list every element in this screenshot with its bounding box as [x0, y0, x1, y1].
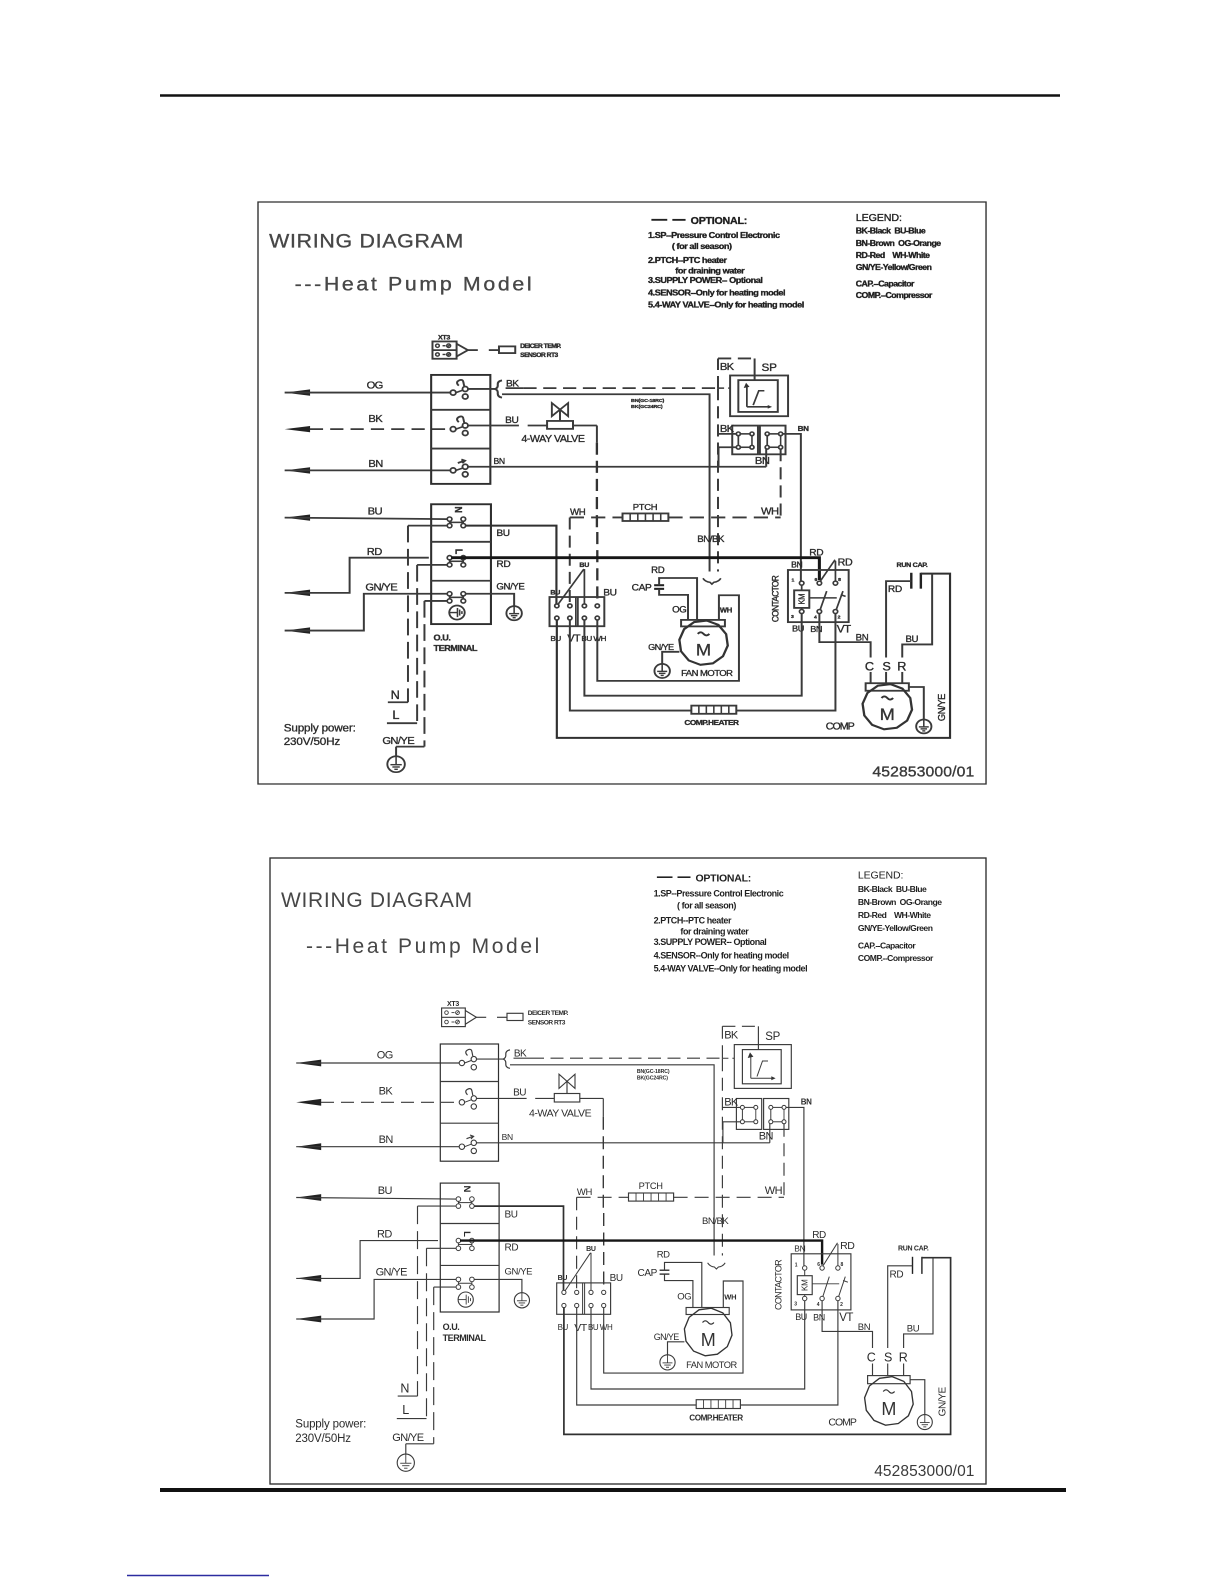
wire BK (dashed) [321, 1101, 459, 1103]
svg-text:L: L [461, 1231, 472, 1237]
wire arrow GN/YE branch [285, 627, 310, 633]
footer link line (blue) [127, 1575, 269, 1577]
wire RD bus (thick) [451, 558, 819, 580]
svg-text:GN/YE: GN/YE [392, 1432, 423, 1444]
svg-text:1.SP--Pressure Control Electro: 1.SP--Pressure Control Electronic [648, 230, 780, 240]
terminal contacts N row [458, 1202, 472, 1204]
svg-text:WH: WH [593, 634, 606, 643]
optional legend dashes [657, 876, 673, 878]
wire BK dashed to SP [514, 1057, 532, 1059]
wiring diagram sheet 2 (bottom) [270, 858, 986, 1484]
wire BK dashed up-over to SP [721, 1026, 723, 1058]
svg-text:BN: BN [858, 1322, 871, 1333]
svg-text:COMP: COMP [828, 1416, 856, 1428]
compressor terminal box [866, 683, 909, 691]
svg-text:8: 8 [841, 1262, 844, 1268]
svg-text:230V/50Hz: 230V/50Hz [284, 736, 341, 747]
wire BN up into connector [769, 1124, 771, 1143]
wire BN out long [477, 1142, 770, 1144]
svg-text:BU: BU [907, 1323, 920, 1334]
svg-text:KM: KM [801, 1279, 810, 1291]
wire BN [296, 1146, 459, 1148]
connector SP 4-pole right half [764, 1099, 789, 1130]
wire BN/BK solid to sensor plug [510, 1065, 714, 1256]
wire cap bottom OG to motor [659, 589, 688, 620]
wire RD with step [285, 558, 429, 593]
wiring diagram sheet 1 (top) [258, 202, 986, 784]
earth symbol (compressor) [916, 719, 931, 733]
wire BU out of terminal to plug [466, 526, 557, 604]
svg-text:BN-Brown OG-Orange: BN-Brown OG-Orange [858, 897, 942, 907]
wire BK dashed to SP [506, 387, 524, 389]
sensor curly bracket [703, 578, 721, 584]
run capacitor [912, 1257, 914, 1274]
svg-text:BU: BU [579, 562, 589, 569]
svg-text:OG: OG [672, 605, 686, 615]
svg-text:CAP.--Capacitor: CAP.--Capacitor [856, 279, 915, 289]
brace BK/BN split [495, 380, 502, 397]
PTC heater PTCH [629, 1193, 674, 1201]
svg-text:BN: BN [801, 1098, 812, 1107]
bracket GN/YE supply [396, 746, 424, 748]
svg-text:Supply power:: Supply power: [295, 1418, 366, 1430]
svg-text:BN-Brown OG-Orange: BN-Brown OG-Orange [856, 238, 942, 248]
wire VT contactor to heater [570, 614, 836, 711]
wire BN contactor to COMP C [819, 614, 870, 658]
brace BK/BN split [503, 1050, 510, 1068]
svg-text:N: N [453, 507, 463, 514]
svg-text:BU: BU [610, 1273, 623, 1284]
earth symbol (compressor) [917, 1415, 932, 1430]
wire OG [296, 1062, 459, 1064]
svg-text:WH: WH [724, 1292, 736, 1301]
svg-text:RD: RD [651, 566, 665, 576]
svg-text:BU: BU [550, 590, 560, 597]
wire BK to connector pin [722, 1106, 740, 1108]
svg-text:S: S [882, 660, 890, 673]
svg-text:WH: WH [720, 606, 732, 615]
plug pins [562, 1290, 566, 1294]
wire N stub [408, 525, 447, 527]
svg-text:452853000/01: 452853000/01 [874, 1463, 974, 1480]
svg-text:1.SP--Pressure Control Electro: 1.SP--Pressure Control Electronic [654, 889, 784, 899]
svg-text:CAP: CAP [638, 1268, 658, 1279]
svg-text:DEICER TEMP.: DEICER TEMP. [528, 1010, 569, 1017]
svg-text:BN: BN [755, 455, 770, 466]
svg-text:RD: RD [377, 1229, 392, 1241]
wire BU out of terminal to plug [474, 1206, 563, 1290]
contactor coil pins [799, 581, 803, 585]
wire run cap right loop (BU) [564, 1258, 951, 1435]
terminal contacts L row [450, 560, 464, 562]
SP characteristic graph [750, 1057, 752, 1078]
contactor main contact (RD) [820, 1266, 824, 1270]
svg-text:BN/BK: BN/BK [697, 535, 725, 545]
earth symbol (right of terminal) [506, 606, 521, 620]
compressor terminal box [868, 1376, 911, 1384]
wire BU to COMP R [904, 1258, 933, 1348]
wire WH dashed down to plug [576, 1197, 578, 1290]
svg-text:BU: BU [603, 588, 617, 598]
wire VT contactor to heater [577, 1301, 838, 1405]
svg-text:BK: BK [379, 1086, 394, 1098]
svg-text:4: 4 [814, 615, 817, 621]
pressure control SP box [734, 1045, 791, 1089]
svg-text:RD: RD [809, 548, 823, 558]
capacitor CAP (fan) [654, 584, 664, 586]
wire WH dashed PTCH line [577, 1196, 629, 1198]
svg-text:BU: BU [586, 1246, 596, 1253]
earth symbol (fan motor) [654, 664, 669, 678]
svg-text:3.SUPPLY POWER-- Optional: 3.SUPPLY POWER-- Optional [654, 937, 767, 947]
wire GN/YE with step [285, 594, 447, 631]
svg-text:for draining water: for draining water [680, 927, 749, 937]
svg-text:BN: BN [791, 561, 803, 570]
svg-text:XT3: XT3 [438, 335, 451, 342]
wire BK dashed up-over to SP [717, 358, 719, 388]
svg-text:RD: RD [890, 1270, 904, 1281]
svg-text:BK: BK [724, 1097, 739, 1109]
wire GN/YE fan earth [668, 1342, 685, 1355]
svg-text:Supply power:: Supply power: [284, 723, 356, 734]
wire BN from connector to contactor [783, 434, 801, 581]
svg-text:SENSOR RT3: SENSOR RT3 [520, 352, 559, 359]
sensor curly bracket [708, 1263, 726, 1269]
svg-text:BN: BN [794, 1243, 805, 1253]
contactor coil KM [794, 590, 809, 608]
svg-text:GN/YE: GN/YE [938, 1387, 949, 1417]
svg-text:RUN CAP.: RUN CAP. [897, 562, 928, 569]
svg-text:BN: BN [813, 1313, 825, 1323]
svg-text:---Heat Pump Model: ---Heat Pump Model [295, 273, 535, 295]
wire WH motor loop [604, 1281, 743, 1373]
capacitor CAP (fan) [660, 1269, 670, 1271]
svg-text:RD: RD [888, 584, 902, 594]
svg-text:GN/YE: GN/YE [648, 642, 674, 652]
svg-text:BU: BU [368, 506, 382, 517]
wire BK to connector pin [718, 433, 736, 435]
svg-text:BU: BU [588, 1323, 599, 1332]
svg-text:KM: KM [797, 594, 806, 605]
svg-text:BN: BN [798, 424, 810, 433]
PTC heater PTCH [623, 513, 669, 521]
svg-text:BN: BN [502, 1132, 513, 1142]
svg-text:O.U.: O.U. [433, 633, 450, 643]
wire BK (dashed) [310, 428, 450, 430]
leader BU pin1 [565, 1253, 590, 1291]
wire WH dashed from connector down [780, 449, 782, 517]
wire connector left-bottom pin to BN wire [719, 447, 737, 467]
4-way valve [547, 421, 573, 429]
contactor aux contacts [820, 1296, 824, 1300]
connector XT3 [432, 341, 456, 358]
wire valve to plug (dashed) [580, 1097, 604, 1099]
svg-text:C: C [865, 660, 874, 673]
svg-text:N: N [391, 688, 400, 701]
terminal block upper (OG/BK/BN) [440, 1044, 498, 1161]
wire N dashed down [407, 526, 409, 703]
earth symbol (fan motor) [660, 1355, 675, 1370]
svg-text:WH: WH [761, 506, 779, 517]
wire arrow RD branch [285, 590, 310, 596]
svg-text:6: 6 [814, 577, 817, 583]
svg-text:1: 1 [792, 578, 795, 584]
svg-text:M: M [881, 1399, 896, 1419]
bracket L [387, 722, 417, 724]
wire BU contactor to plug pin3 [591, 1301, 805, 1389]
svg-text:---Heat Pump Model: ---Heat Pump Model [306, 935, 542, 958]
wire to supply earth [395, 747, 397, 757]
svg-text:4.SENSOR--Only for heating mod: 4.SENSOR--Only for heating model [654, 951, 789, 961]
wire arrow BU [296, 1194, 321, 1201]
fan motor M polygon circle [679, 621, 727, 665]
page bottom rule [160, 1488, 1066, 1492]
plug connector (fan motor) [557, 1283, 611, 1314]
svg-text:RD-Red WH-White: RD-Red WH-White [858, 910, 931, 920]
pressure control SP box [730, 375, 788, 416]
wire WH dashed PTCH line [570, 516, 623, 518]
terminal contacts L row [458, 1243, 472, 1245]
svg-text:4-WAY VALVE: 4-WAY VALVE [521, 435, 585, 445]
wire GN/YE dashed down [423, 601, 425, 747]
fan motor terminal box [681, 620, 725, 627]
wire arrow BN [285, 467, 310, 473]
connector SP 4-pole left half [736, 1099, 761, 1130]
wire L stub [427, 1247, 457, 1249]
contactor coil KM [797, 1276, 812, 1295]
svg-text:BK: BK [720, 361, 735, 372]
svg-text:BU: BU [496, 528, 510, 538]
svg-text:OPTIONAL:: OPTIONAL: [696, 873, 752, 885]
wire XT3 to sensor [457, 344, 468, 357]
svg-text:M: M [696, 640, 711, 659]
connector SP 4-pole right half [760, 426, 786, 455]
svg-text:L: L [392, 709, 399, 722]
wire WH dashed down to plug [569, 517, 571, 604]
svg-text:BK-Black BU-Blue: BK-Black BU-Blue [856, 226, 926, 236]
svg-text:BU: BU [505, 1209, 518, 1220]
svg-text:TERMINAL: TERMINAL [433, 643, 478, 653]
svg-text:GN/YE: GN/YE [505, 1267, 533, 1278]
connector pins [740, 1105, 744, 1109]
wire BK dashed stub to SP box [718, 387, 730, 389]
wire OG out to brace [477, 1058, 504, 1060]
svg-text:BU: BU [513, 1088, 526, 1099]
wire GN/YE out to earth [466, 594, 515, 606]
wire RD with step [296, 1241, 438, 1279]
wire L dashed down [426, 1248, 428, 1418]
earth symbol (supply) [397, 1454, 414, 1471]
svg-text:RD: RD [496, 559, 510, 569]
wire connector left-bottom pin to BN wire [723, 1122, 741, 1143]
4-way valve [554, 1094, 580, 1103]
svg-text:2.PTCH--PTC heater: 2.PTCH--PTC heater [654, 916, 732, 926]
wire cap bottom OG to motor [665, 1274, 693, 1307]
wire GN/YE fan earth [662, 652, 679, 664]
svg-text:RD-Red WH-White: RD-Red WH-White [856, 250, 931, 260]
svg-text:GN/YE: GN/YE [365, 582, 397, 593]
svg-text:GN/YE: GN/YE [654, 1332, 680, 1342]
wire arrow OG [296, 1060, 321, 1067]
wire GN/YE comp earth [910, 1380, 925, 1415]
svg-text:3.SUPPLY POWER-- Optional: 3.SUPPLY POWER-- Optional [648, 275, 762, 285]
svg-text:8: 8 [838, 577, 841, 583]
svg-text:GN/YE-Yellow/Green: GN/YE-Yellow/Green [858, 923, 933, 933]
compressor heater COMP.HEATER [696, 1400, 740, 1409]
wire arrow BK [285, 426, 310, 432]
switch contact OG row [465, 1061, 472, 1064]
wire BU contactor to plug pin3 [584, 614, 801, 696]
svg-text:BN/BK: BN/BK [702, 1216, 729, 1227]
svg-text:N: N [461, 1186, 472, 1193]
diagram border frame [258, 202, 986, 784]
svg-text:BN: BN [759, 1131, 774, 1143]
svg-text:452853000/01: 452853000/01 [872, 764, 974, 780]
svg-text:GN/YE: GN/YE [936, 693, 947, 721]
svg-text:BN: BN [368, 458, 382, 469]
svg-text:COMP.--Compressor: COMP.--Compressor [856, 290, 933, 300]
svg-text:GN/YE: GN/YE [382, 736, 414, 747]
svg-text:2: 2 [838, 615, 841, 621]
earth symbol (terminal internal) [449, 605, 464, 619]
svg-text:3: 3 [794, 1302, 797, 1308]
fan motor terminal box [686, 1308, 729, 1315]
switch contact BK row [465, 1100, 472, 1103]
diagram border frame [270, 858, 986, 1484]
svg-text:CAP: CAP [632, 583, 652, 593]
connector SP 4-pole left half [732, 426, 758, 455]
svg-text:BN: BN [810, 625, 822, 635]
svg-text:RUN CAP.: RUN CAP. [898, 1245, 929, 1252]
terminal contacts N row [450, 521, 464, 523]
wire BN contactor to COMP C [822, 1301, 872, 1348]
wire XT3 to sensor [465, 1011, 476, 1025]
svg-text:VT: VT [837, 624, 852, 635]
svg-text:OG: OG [367, 380, 383, 391]
svg-text:BU: BU [558, 1275, 568, 1282]
compressor COMP M polygon circle [863, 684, 912, 729]
svg-text:WIRING DIAGRAM: WIRING DIAGRAM [269, 230, 464, 252]
terminal block lower (N/L/GN-YE) [440, 1183, 499, 1312]
svg-text:BU: BU [505, 415, 519, 425]
wire BU out to 4-way valve [468, 424, 519, 426]
svg-text:BN: BN [856, 633, 869, 643]
deicer temp sensor RT3 [499, 346, 515, 353]
wire OG out to brace [468, 388, 495, 390]
svg-text:BN: BN [379, 1134, 394, 1146]
svg-text:2.PTCH--PTC heater: 2.PTCH--PTC heater [648, 255, 728, 265]
wire BU [296, 1198, 456, 1200]
wire pin3 up [590, 1253, 592, 1291]
wire arrow BN [296, 1143, 321, 1150]
wire BN from connector to contactor [786, 1107, 804, 1265]
wire L dashed down [416, 565, 418, 723]
earth symbol (right of terminal) [514, 1293, 529, 1308]
svg-text:PTCH: PTCH [639, 1181, 663, 1191]
svg-text:RD: RD [812, 1230, 826, 1241]
svg-text:OPTIONAL:: OPTIONAL: [691, 216, 747, 226]
svg-text:BN(GC-18RC): BN(GC-18RC) [637, 1069, 670, 1075]
compressor heater COMP.HEATER [691, 706, 736, 714]
wire arrow BK [296, 1099, 321, 1106]
run capacitor [910, 573, 912, 589]
svg-text:LEGEND:: LEGEND: [856, 213, 902, 223]
wire BK dashed down to sensor curly [717, 388, 719, 571]
switch contact OG row [456, 390, 463, 392]
wire GN/YE out to earth [474, 1279, 522, 1292]
svg-text:RD: RD [840, 1240, 855, 1252]
bracket GN/YE supply [406, 1443, 434, 1445]
terminal block lower (N/L/GN-YE) [431, 504, 491, 624]
switch contact BN row [456, 468, 463, 470]
bracket N [398, 1395, 418, 1397]
wire RD run cap to S [888, 1266, 913, 1348]
svg-text:VT: VT [839, 1312, 853, 1324]
svg-text:OG: OG [677, 1291, 691, 1302]
svg-text:SP: SP [762, 362, 777, 373]
wire BN [285, 469, 451, 471]
wire BU [285, 518, 447, 519]
svg-text:COMP: COMP [826, 722, 855, 732]
wire BK dashed down to sensor curly [721, 1058, 723, 1255]
contactor link line [812, 1283, 839, 1285]
wire OG [285, 392, 451, 394]
svg-text:COMP.HEATER: COMP.HEATER [689, 1413, 743, 1422]
leader BU pin1 [558, 569, 584, 604]
svg-text:BK(GC24RC): BK(GC24RC) [637, 1075, 668, 1081]
svg-text:BK(GC24RC): BK(GC24RC) [631, 404, 663, 410]
svg-text:GN/YE: GN/YE [376, 1267, 407, 1279]
connector XT3 [442, 1008, 466, 1027]
wire GN/YE stub [434, 1286, 456, 1288]
svg-text:M: M [701, 1330, 716, 1350]
svg-text:2: 2 [840, 1302, 843, 1308]
wire BN/BK solid to sensor plug [502, 394, 710, 571]
SP characteristic graph [746, 387, 748, 407]
svg-text:M: M [880, 705, 895, 724]
svg-text:6: 6 [817, 1262, 820, 1268]
svg-text:GN/YE-Yellow/Green: GN/YE-Yellow/Green [856, 262, 932, 272]
svg-text:FAN MOTOR: FAN MOTOR [686, 1360, 737, 1370]
wire cap top to motor [659, 578, 697, 620]
deicer temp sensor RT3 [507, 1013, 523, 1020]
svg-text:GN/YE: GN/YE [496, 582, 524, 592]
svg-text:WH: WH [765, 1185, 783, 1197]
svg-text:( for all season): ( for all season) [677, 901, 736, 911]
wire BN out long [468, 466, 766, 468]
wire to supply earth [405, 1444, 407, 1454]
svg-text:RD: RD [505, 1243, 519, 1254]
svg-text:N: N [400, 1382, 409, 1396]
svg-text:3: 3 [791, 614, 794, 620]
svg-text:OG: OG [377, 1050, 393, 1062]
wire RD bus (thick) [460, 1241, 822, 1265]
svg-text:COMP.HEATER: COMP.HEATER [684, 718, 739, 727]
svg-text:WH: WH [600, 1323, 613, 1332]
svg-text:CONTACTOR: CONTACTOR [774, 1259, 784, 1310]
svg-text:C: C [867, 1351, 876, 1365]
svg-text:RD: RD [838, 558, 853, 568]
svg-text:4: 4 [817, 1302, 820, 1308]
svg-text:TERMINAL: TERMINAL [443, 1333, 487, 1343]
page top rule [160, 94, 1060, 97]
svg-text:4-WAY VALVE: 4-WAY VALVE [529, 1107, 592, 1119]
svg-text:SENSOR RT3: SENSOR RT3 [528, 1020, 566, 1027]
wire valve to plug (dashed) [573, 424, 597, 426]
wire cap top to motor [665, 1262, 702, 1307]
wire GN/YE dashed down [433, 1287, 435, 1444]
svg-text:BU: BU [378, 1185, 393, 1197]
